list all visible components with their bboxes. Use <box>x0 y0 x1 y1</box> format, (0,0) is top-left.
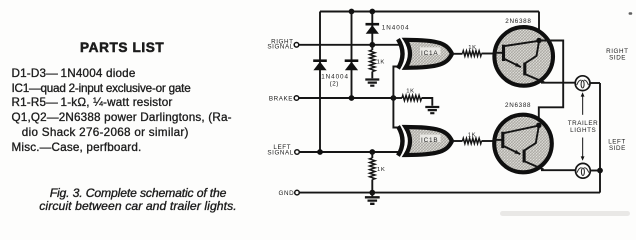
svg-text:SIDE: SIDE <box>609 145 626 152</box>
svg-text:1K: 1K <box>468 45 476 51</box>
node: right signal / D1 / R1 junction <box>369 42 375 48</box>
wire: D1 branch vertical (rail to right-signal) <box>371 12 373 45</box>
terminal: LEFT SIGNAL input <box>295 150 300 155</box>
parts list body <box>12 67 232 155</box>
wire: Q1 emitter to right lamp <box>541 82 575 84</box>
node: brake / gate bus / R3 junction <box>391 95 397 101</box>
resistor R4 1K (left-signal pulldown) <box>371 152 373 158</box>
svg-text:LIGHTS: LIGHTS <box>570 127 596 134</box>
ground: below R1 <box>365 80 379 86</box>
wire: Q2 emitter to left lamp <box>541 169 576 171</box>
parts list title <box>80 40 164 55</box>
diode D3 1N4004 <box>345 59 359 62</box>
diode D1 1N4004 <box>366 23 380 26</box>
svg-text:IC1A: IC1A <box>421 50 438 57</box>
arrow: trailer lights to left lamp <box>582 138 584 158</box>
lamp: right side trailer light <box>575 76 590 91</box>
svg-text:SIDE: SIDE <box>609 55 626 62</box>
svg-text:(2): (2) <box>330 80 339 87</box>
svg-text:1K: 1K <box>468 132 476 138</box>
wire: top supply rail <box>320 11 539 13</box>
wire: collector tie (Q1 collector to Q2 collector) <box>539 41 563 126</box>
wire: ground return line <box>299 192 600 194</box>
wire: brake line <box>299 97 394 99</box>
svg-text:1K: 1K <box>377 59 385 65</box>
svg-text:SIGNAL: SIGNAL <box>267 149 293 156</box>
scan smudge bottom right <box>500 211 630 216</box>
node: gnd / R4 junction <box>369 190 375 196</box>
xor gate IC1B <box>406 127 453 155</box>
terminal: GND <box>295 190 300 195</box>
svg-text:2N6388: 2N6388 <box>505 18 531 25</box>
svg-text:TRAILER: TRAILER <box>568 120 598 127</box>
op-amp? no: xor gate IC1A <box>406 40 453 68</box>
wire: right signal line to IC1A input <box>299 44 400 46</box>
transistor Q1 2N6388 power darlington <box>493 27 553 86</box>
wire: left signal line to IC1B input <box>299 151 400 153</box>
wire: IC1B output <box>452 140 463 142</box>
svg-text:1K: 1K <box>377 167 385 173</box>
svg-text:SIGNAL: SIGNAL <box>267 44 293 51</box>
transistor Q2 2N6388 power darlington <box>493 115 552 173</box>
svg-text:IC1B: IC1B <box>421 137 438 144</box>
terminal: BRAKE input <box>294 96 299 101</box>
wire: D2 branch vertical (rail to left-signal) <box>319 12 321 153</box>
lamp: left side trailer light <box>576 163 591 178</box>
resistor R5 1K (IC1B output to Q2 base) <box>463 138 482 143</box>
ground: chassis ground below gnd line <box>371 193 373 197</box>
resistor R2 1K (IC1A output to Q1 base) <box>463 51 482 56</box>
diode D2 1N4004 <box>313 59 327 62</box>
ground: below R3 <box>425 107 439 113</box>
node: left lamp / return junction <box>597 168 603 174</box>
wire: left lamp to return line <box>590 170 600 172</box>
svg-text:1N4004: 1N4004 <box>382 24 410 31</box>
wire: return line (right vertical + bottom to gnd) <box>599 83 601 193</box>
node: left signal / R4 junction <box>369 149 375 155</box>
node: brake / D3 junction <box>349 95 355 101</box>
node: rail / D3 junction <box>349 9 355 15</box>
node: left signal / D2 junction <box>317 149 323 155</box>
svg-text:2N6388: 2N6388 <box>505 102 531 109</box>
wire: right lamp to return line <box>590 82 600 84</box>
wire: IC1A output <box>452 53 463 55</box>
wire: gate input bus (IC1A pin to brake to IC1B pin) <box>393 67 400 128</box>
svg-text:BRAKE: BRAKE <box>269 96 293 103</box>
node: rail / D1 junction <box>369 9 375 15</box>
resistor R3 1K (brake to ground) <box>393 97 402 99</box>
svg-text:GND: GND <box>279 190 295 197</box>
figure caption <box>0 187 276 214</box>
arrow: trailer lights to right lamp <box>582 96 584 115</box>
svg-text:1K: 1K <box>406 88 414 94</box>
wire: D3 branch vertical (rail to brake) <box>351 12 353 99</box>
terminal: RIGHT SIGNAL input <box>294 43 299 48</box>
scan speck top right <box>629 12 633 14</box>
wire: rail drop to Q1 collector <box>538 12 540 41</box>
resistor R1 1K (right-signal pulldown) <box>371 45 373 50</box>
